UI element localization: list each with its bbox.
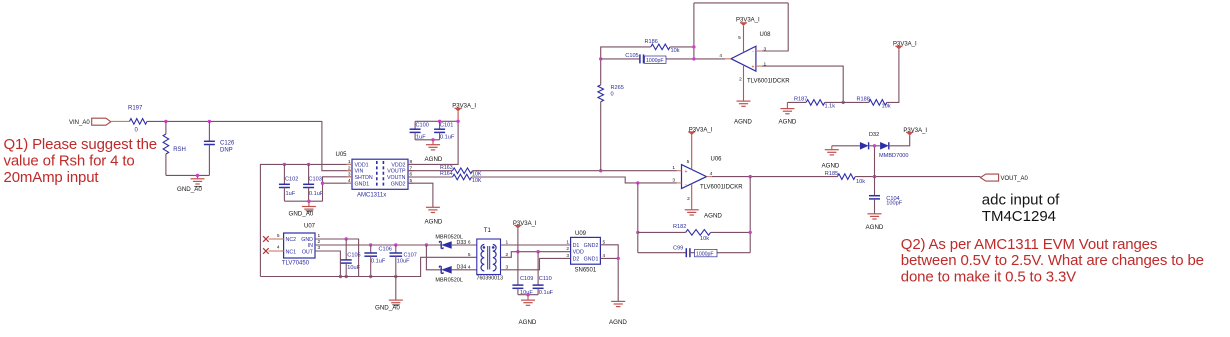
svg-text:U07: U07 — [304, 224, 316, 230]
svg-text:T1: T1 — [484, 228, 492, 234]
wire C103 top lead — [308, 164, 310, 184]
value C99 1000pF boxed — [695, 249, 718, 256]
U08 ground pin 2 — [743, 65, 745, 101]
svg-text:AGND: AGND — [425, 156, 443, 163]
svg-text:P3V3A_I: P3V3A_I — [513, 221, 537, 227]
svg-text:R188: R188 — [857, 97, 870, 103]
junction C105 right — [692, 57, 695, 60]
svg-text:GND2: GND2 — [584, 243, 599, 249]
wire R186 to node — [670, 46, 694, 48]
wire T1 pin1 to U09 D1 — [501, 244, 571, 246]
svg-text:0.1uF: 0.1uF — [371, 258, 386, 264]
svg-text:U08: U08 — [760, 32, 772, 38]
R187 left AGND — [786, 102, 788, 108]
U05 pin numbers — [348, 159, 413, 184]
svg-text:AGND: AGND — [519, 319, 537, 326]
wire GND1 ground stem — [308, 201, 310, 206]
diode D32 second — [880, 142, 889, 150]
svg-text:C109: C109 — [520, 276, 533, 282]
wire C102 bottom lead — [283, 188, 285, 202]
svg-text:C105: C105 — [347, 252, 360, 258]
svg-text:NC2: NC2 — [286, 237, 297, 243]
svg-text:0: 0 — [611, 91, 614, 97]
junction R182 left — [636, 231, 639, 234]
driver U09 SN6501 — [571, 237, 601, 264]
ground AGND under U08 — [737, 101, 751, 106]
annotation Q1 red text — [4, 136, 157, 186]
wire D33 to T1 pin6 — [452, 244, 477, 246]
resistor R197 — [130, 119, 148, 125]
junction ground stem — [196, 174, 199, 177]
ground GND_A0 under C103 — [302, 207, 316, 212]
wire feedback to U08 pin3 — [762, 3, 788, 51]
wire D32 to power — [889, 135, 910, 146]
svg-text:P3V3A_I: P3V3A_I — [903, 128, 927, 134]
resistor R163 — [453, 168, 473, 174]
wire R265 bottom lead — [600, 102, 602, 171]
svg-text:10k: 10k — [882, 103, 891, 109]
svg-text:VDD2: VDD2 — [391, 162, 405, 168]
wire D34 to T1 pin4 — [452, 269, 477, 271]
wire R164 to U06 pin3 — [472, 177, 677, 183]
resistor R188 — [869, 100, 887, 106]
wire GND2 to AGND — [408, 183, 433, 207]
svg-text:GND1: GND1 — [355, 181, 370, 187]
wire to R182 — [638, 231, 686, 233]
resistor R265 — [598, 85, 604, 102]
svg-text:20mAmp input: 20mAmp input — [4, 169, 100, 186]
wire R163 to U06 pin1 — [473, 170, 677, 172]
svg-text:C99: C99 — [673, 246, 683, 252]
wire AGND stem C109 — [527, 295, 529, 300]
junction feedback pin3 — [636, 181, 639, 184]
svg-text:C110: C110 — [539, 276, 552, 282]
svg-text:D33: D33 — [457, 240, 467, 246]
wire U07 IN rail — [315, 244, 441, 246]
wire R185 to VOUT — [855, 176, 980, 178]
svg-text:760390013: 760390013 — [477, 276, 504, 282]
svg-text:VIN_A0: VIN_A0 — [69, 120, 90, 126]
wire isolated ground rail to T1 pin5 — [260, 257, 476, 276]
U05 pin stubs right — [408, 164, 414, 183]
wire C100 top lead — [414, 121, 416, 129]
resistor R164 — [453, 174, 472, 180]
svg-text:0.1uF: 0.1uF — [440, 135, 455, 141]
junction C105b top — [345, 237, 348, 240]
diode D32 first — [860, 142, 869, 150]
wire C100 C101 bottom — [415, 139, 440, 141]
svg-text:R182: R182 — [673, 224, 686, 230]
svg-text:10K: 10K — [472, 178, 482, 184]
svg-text:1.1k: 1.1k — [825, 103, 836, 109]
svg-text:P3V3A_I: P3V3A_I — [736, 17, 760, 23]
wire RSH bottom lead — [165, 154, 167, 175]
U07 pin5 stub — [269, 238, 284, 240]
svg-text:3: 3 — [566, 253, 569, 259]
junction D32 C104 — [873, 175, 876, 178]
U08 pin4 stub — [725, 58, 731, 60]
wire C101 top lead — [439, 121, 441, 129]
GND_A0 stem under rail — [395, 277, 397, 300]
svg-text:C100: C100 — [416, 122, 429, 128]
svg-text:value of Rsh for 4 to: value of Rsh for 4 to — [4, 152, 135, 169]
junction C103 top — [307, 163, 310, 166]
wire RSH top lead — [165, 121, 167, 134]
svg-text:10k: 10k — [700, 236, 709, 242]
wire VDD2 to P3V3A rail — [408, 121, 458, 164]
svg-text:AGND: AGND — [866, 224, 884, 231]
svg-text:3: 3 — [348, 172, 351, 178]
U08 power pin 5 — [743, 26, 745, 53]
svg-text:10uF: 10uF — [347, 265, 360, 271]
T1 phase dots — [483, 246, 486, 249]
wire C99 right lead — [690, 252, 750, 254]
svg-text:3: 3 — [764, 47, 767, 53]
svg-text:R186: R186 — [645, 39, 658, 45]
svg-text:2: 2 — [318, 239, 321, 245]
wire C126 top lead — [208, 121, 210, 141]
op-amp U08 TLV6001IDCKR — [731, 46, 756, 71]
svg-text:R197: R197 — [128, 106, 143, 112]
U08 input polarity marks — [752, 49, 755, 70]
junction C106 top — [369, 243, 372, 246]
svg-text:3: 3 — [672, 177, 675, 183]
junction power VDD2 — [456, 120, 459, 123]
junction AGND stem C100 — [431, 138, 434, 141]
svg-text:AMC1311x: AMC1311x — [357, 193, 386, 199]
svg-text:+: + — [685, 169, 688, 175]
wire RSH C126 bottom — [166, 174, 210, 176]
wire feedback right vertical — [749, 177, 751, 253]
svg-text:P3V3A_I: P3V3A_I — [689, 127, 713, 133]
svg-text:done to make it 0.5 to 3.3V: done to make it 0.5 to 3.3V — [901, 269, 1076, 286]
annotation Q2 red text — [901, 236, 1204, 286]
svg-text:C106: C106 — [379, 247, 392, 253]
junction AGND stem C109 — [526, 293, 529, 296]
svg-text:GND2: GND2 — [391, 181, 406, 187]
svg-text:VIN: VIN — [355, 169, 364, 175]
svg-text:adc input of: adc input of — [982, 191, 1060, 208]
svg-text:R163: R163 — [440, 165, 453, 171]
diode D34 MBR0520L — [439, 266, 451, 274]
ground AGND under R187 — [780, 109, 794, 114]
wire C102 top lead — [283, 164, 285, 184]
svg-text:VDD: VDD — [573, 250, 584, 256]
wire C103 bottom lead — [308, 188, 310, 202]
svg-text:1000pF: 1000pF — [696, 252, 714, 258]
junction OUT rail — [339, 275, 342, 278]
svg-text:6: 6 — [468, 240, 471, 246]
wire D32 center — [869, 145, 881, 147]
junction C101 top — [438, 120, 441, 123]
T1 pin numbers — [468, 240, 509, 271]
wire GND1 rail — [284, 200, 322, 202]
junction R265 bottom — [599, 169, 602, 172]
wire C105 to U08 out — [644, 58, 726, 60]
U07 pin4 stub — [269, 250, 284, 252]
svg-text:D1: D1 — [573, 243, 580, 249]
transformer T1 760390013 — [477, 239, 501, 275]
svg-text:AGND: AGND — [734, 118, 752, 125]
junction R182 right — [749, 231, 752, 234]
junction C107 top — [394, 243, 397, 246]
wire VIN to R197 — [111, 120, 130, 122]
svg-text:0.1uF: 0.1uF — [539, 290, 554, 296]
svg-text:U05: U05 — [336, 152, 348, 158]
svg-text:C105: C105 — [625, 53, 638, 59]
wire C104 top lead — [874, 177, 876, 196]
no-connect X U07 pin5 — [263, 236, 269, 242]
svg-text:D32: D32 — [869, 132, 879, 138]
junction RSH top — [164, 120, 167, 123]
svg-text:GND1: GND1 — [584, 257, 599, 263]
no-connect X U07 pin4 — [263, 248, 269, 254]
svg-text:10uF: 10uF — [397, 258, 410, 264]
junction C107 bottom — [394, 275, 397, 278]
svg-text:5: 5 — [277, 233, 280, 239]
wire U08 node vertical — [693, 3, 695, 59]
junction C126 top — [208, 120, 211, 123]
D32 left AGND — [831, 146, 833, 150]
resistor R185 — [837, 174, 855, 180]
svg-text:0.1uF: 0.1uF — [309, 191, 324, 197]
svg-text:DNP: DNP — [220, 147, 233, 153]
wire C109 bottom lead — [517, 288, 519, 294]
wire GND1 pin — [323, 182, 353, 184]
U09 pin numbers — [566, 239, 605, 259]
power P3V3A_I above U06 — [688, 132, 695, 135]
junction D32 center tap — [873, 144, 876, 147]
svg-text:AGND: AGND — [779, 118, 797, 125]
P3V3A_I power at U09 — [517, 228, 519, 251]
svg-text:P3V3A_I: P3V3A_I — [893, 42, 917, 48]
wire C106 top lead — [370, 245, 372, 253]
svg-text:AGND: AGND — [822, 163, 840, 170]
ground AGND under C109 C110 — [521, 300, 535, 305]
wire C101 bottom lead — [439, 132, 441, 139]
ground AGND under U06 — [685, 210, 699, 215]
svg-text:U09: U09 — [575, 231, 587, 237]
junction divider — [842, 101, 845, 104]
svg-text:D2: D2 — [573, 257, 580, 263]
junction C106 bottom — [369, 275, 372, 278]
power P3V3A_I top right — [895, 46, 902, 49]
junction SHTDN GND1 tie — [321, 182, 324, 185]
svg-text:1: 1 — [566, 239, 569, 245]
wire C106 bottom lead — [370, 256, 372, 276]
wire C110 bottom lead — [537, 288, 539, 294]
svg-text:4: 4 — [710, 171, 713, 177]
svg-text:OUT: OUT — [302, 249, 314, 255]
junction D34 branch — [425, 243, 428, 246]
svg-text:TM4C1294: TM4C1294 — [982, 208, 1056, 225]
U06 power pin 5 — [691, 135, 693, 170]
svg-text:GND_A0: GND_A0 — [375, 305, 400, 312]
resistor R187 — [806, 100, 825, 106]
svg-text:C102: C102 — [285, 177, 298, 183]
svg-text:TLV6001IDCKR: TLV6001IDCKR — [747, 79, 790, 85]
U07 pin numbers — [277, 233, 321, 251]
svg-text:4: 4 — [468, 265, 471, 271]
svg-text:1: 1 — [348, 159, 351, 165]
svg-text:4: 4 — [719, 53, 722, 59]
wire R265 to R186 — [601, 47, 651, 85]
svg-text:GND: GND — [301, 237, 313, 243]
wire C109 C110 bottom — [518, 294, 538, 296]
junction C105 left — [599, 57, 602, 60]
U06 pin numbers — [672, 159, 712, 202]
svg-text:100pF: 100pF — [886, 201, 902, 207]
power P3V3A_I above D32 — [906, 132, 913, 135]
wire R182 to output vertical — [711, 231, 751, 233]
svg-text:1: 1 — [672, 165, 675, 171]
port VOUT_A0 — [980, 174, 998, 181]
junction feedback output — [749, 175, 752, 178]
svg-text:between 0.5V to 2.5V. What are: between 0.5V to 2.5V. What are changes t… — [901, 252, 1204, 269]
wire VOUTN to R164 — [408, 176, 453, 178]
diode D33 MBR0520L — [439, 241, 451, 249]
U06 ground pin 2 — [691, 184, 693, 210]
wire C126 bottom lead — [208, 145, 210, 176]
svg-text:2: 2 — [566, 246, 569, 252]
wire R188 to power — [887, 49, 899, 102]
svg-text:R185: R185 — [825, 171, 838, 177]
svg-text:5: 5 — [468, 252, 471, 258]
wire AGND to R187 — [787, 101, 806, 103]
wire U09 GND1 — [600, 257, 618, 259]
svg-text:+: + — [752, 65, 755, 71]
svg-text:P3V3A_I: P3V3A_I — [452, 103, 476, 109]
ground AGND under U09 — [611, 301, 625, 306]
svg-text:TLV70450: TLV70450 — [282, 261, 310, 267]
svg-text:1uF: 1uF — [286, 191, 296, 197]
power P3V3A_I above C101 — [455, 108, 462, 111]
value C105 1000pF boxed — [645, 56, 667, 63]
svg-text:3: 3 — [318, 245, 321, 251]
wire VOUTP to R163 — [408, 170, 453, 172]
wire AGND to D32a — [832, 145, 860, 147]
wire U09 GND2 down — [600, 245, 618, 301]
annotation adc input text — [982, 191, 1060, 225]
U06 pin3 stub — [677, 182, 682, 184]
wire T1 pin2 to U09 VDD — [501, 252, 571, 258]
U08 pin3 stub — [756, 50, 762, 52]
svg-text:AGND: AGND — [609, 319, 627, 326]
svg-text:U06: U06 — [711, 156, 723, 162]
svg-text:AGND: AGND — [704, 212, 722, 219]
junction C102 top — [283, 163, 286, 166]
ground AGND under U05 pin5 — [426, 207, 440, 212]
wire U06 output — [712, 176, 837, 178]
svg-text:RSH: RSH — [173, 147, 186, 153]
ground AGND under C104 — [868, 214, 882, 219]
svg-text:SHTDN: SHTDN — [355, 175, 373, 181]
wire C105b bottom lead — [345, 263, 347, 276]
isolated amplifier U05 AMC1311x — [352, 159, 408, 189]
wire C99 left lead — [638, 252, 687, 254]
port VIN_A0 — [92, 118, 111, 125]
ground AGND left of D32 — [825, 150, 839, 155]
svg-text:C103: C103 — [309, 177, 322, 183]
ground GND_A0 input — [191, 179, 205, 184]
junction C110 top — [536, 250, 539, 253]
svg-text:R164: R164 — [440, 171, 453, 177]
wire AGND stem C100 — [432, 140, 434, 145]
svg-text:1: 1 — [318, 233, 321, 239]
svg-text:D34: D34 — [457, 265, 467, 271]
wire VDD1 rail to U07 area — [260, 164, 352, 276]
wire C107 top lead — [395, 245, 397, 253]
U08 pin1 stub — [756, 65, 762, 67]
svg-text:4: 4 — [277, 245, 280, 251]
svg-text:R265: R265 — [611, 85, 624, 91]
U06 pin1 stub — [677, 170, 682, 172]
power P3V3A_I above U09 — [514, 225, 521, 228]
capacitor C110 — [537, 252, 539, 285]
wire R197 to U05 VIN — [147, 121, 352, 170]
U05 pin stubs left — [347, 164, 353, 183]
junction GND1 ground stem — [307, 200, 310, 203]
svg-text:VDD1: VDD1 — [355, 162, 369, 168]
resistor R182 — [686, 230, 711, 236]
wire C100 C101 rail — [415, 120, 458, 122]
wire ground stem — [197, 175, 199, 178]
power P3V3A_I above U08 — [740, 23, 747, 26]
wire feedback left vertical — [637, 183, 639, 253]
junction P3V3A VDD — [516, 250, 519, 253]
U08 pin numbers — [719, 35, 766, 83]
svg-text:SN6501: SN6501 — [575, 268, 597, 274]
svg-text:R187: R187 — [794, 97, 807, 103]
wire U07 OUT down — [315, 251, 340, 277]
junction R186 right — [692, 45, 695, 48]
svg-text:5: 5 — [687, 159, 690, 165]
svg-text:MMBD7000: MMBD7000 — [879, 153, 909, 159]
svg-text:2: 2 — [739, 77, 742, 83]
svg-text:10k: 10k — [671, 48, 680, 54]
wire U08 pin1 to divider — [762, 66, 843, 102]
wire T1 pin3 to U09 D2 — [501, 258, 571, 269]
svg-text:2: 2 — [348, 165, 351, 171]
svg-text:VOUTN: VOUTN — [387, 175, 406, 181]
junction C105b bottom — [345, 275, 348, 278]
wire R187 to R188 — [825, 101, 869, 103]
svg-text:5: 5 — [738, 35, 741, 41]
svg-text:C107: C107 — [404, 252, 417, 258]
wire U08 feedback top — [694, 2, 788, 4]
wire C104 bottom lead — [874, 199, 876, 214]
svg-text:4: 4 — [348, 178, 351, 184]
svg-text:1000pF: 1000pF — [646, 58, 664, 64]
svg-text:10k: 10k — [856, 179, 865, 185]
svg-text:Q2) As per AMC1311 EVM Vout ra: Q2) As per AMC1311 EVM Vout ranges — [901, 236, 1157, 253]
capacitor C109 — [517, 252, 519, 285]
U06 input polarity marks — [685, 169, 688, 187]
svg-text:AGND: AGND — [425, 218, 443, 225]
svg-text:C126: C126 — [220, 141, 235, 147]
U06 pin4 stub — [707, 176, 713, 178]
ground AGND under C100 C101 — [426, 145, 440, 150]
regulator U07 TLV70450 — [284, 233, 315, 258]
svg-text:VOUTP: VOUTP — [387, 169, 406, 175]
wire U07 GND down — [315, 239, 359, 277]
svg-text:TLV6001IDCKR: TLV6001IDCKR — [700, 184, 743, 190]
ground GND_A0 under rail — [389, 300, 403, 305]
wire C105 left lead — [601, 58, 640, 60]
wire C107 bottom lead — [395, 256, 397, 276]
svg-text:IN: IN — [308, 243, 313, 249]
wire C105b top lead — [345, 239, 347, 260]
